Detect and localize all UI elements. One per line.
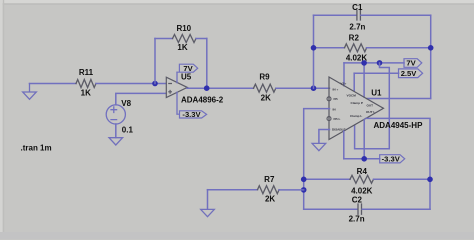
svg-text:VOCM: VOCM [347,93,357,97]
net flag -3.3V (U1 supply) [380,155,405,164]
wire -3.3V row [344,158,380,160]
wire R10 right lead [196,38,207,40]
junction (7V row a) [361,60,367,66]
junction (7V row b) [377,60,383,66]
wire V8 to U5 non-inverting input [116,93,166,104]
junction (R7/R4 node) [301,187,307,193]
junction (-3.3V row) [361,156,367,162]
svg-text:1K: 1K [177,43,187,52]
svg-text:-3.3V: -3.3V [382,155,401,164]
voltage source V8 [106,105,125,124]
resistor R11 [76,80,96,88]
svg-text:ADA4896-2: ADA4896-2 [181,95,224,104]
U5 V+ pin stub [176,72,178,82]
net flag 2.5V (VOCM) [399,69,423,78]
wire 2.5V row [354,72,398,74]
svg-text:4.02K: 4.02K [351,186,373,195]
wire C2 row right [362,208,430,210]
U1 pin bubble (FB+) [327,117,331,121]
svg-text:OUT: OUT [367,103,374,107]
wire R9 to U1 IN+ [276,87,330,89]
ground (R7) [201,209,215,216]
ground (input, left) [23,84,37,100]
resistor R4 [350,175,373,183]
ground (U1 bottom-left pin) [319,130,330,144]
wire feedback right vertical [206,39,208,89]
resistor R2 [345,44,367,52]
wire MODE stub (x=364) [363,63,365,97]
svg-text:Clamp L: Clamp L [350,114,362,118]
wire DISABLE stub [343,131,345,159]
wire VOCM stub [353,73,355,91]
svg-text:C2: C2 [352,196,363,205]
svg-text:R2: R2 [349,33,360,42]
wire R10 left lead [155,38,173,40]
net flag 7V (U5 supply) [177,64,198,73]
junction (R2/C1 left) [311,45,317,51]
svg-text:R11: R11 [79,68,94,77]
net flag -3.3V (U5 supply) [177,110,207,119]
svg-text:R7: R7 [264,175,275,184]
junction (R4 left) [301,177,307,183]
junction (U5 out / R10 / R9) [204,85,210,91]
op-amp U5 [166,77,187,97]
svg-text:2K: 2K [265,195,275,204]
svg-text:2.5V: 2.5V [401,69,418,78]
wire R11 to U5 inverting input [96,83,166,85]
wire U5 output [187,87,254,89]
wire C1 row left [314,14,357,16]
svg-text:VS+: VS+ [341,82,347,86]
svg-text:-3.3V: -3.3V [182,110,201,119]
svg-text:U5: U5 [181,73,192,82]
U1 pin bubble (FB-) [327,97,331,101]
resistor R10 [173,35,196,43]
wire C1 row right [361,14,431,16]
wire top loop right vertical [430,15,432,98]
svg-text:OUT L: OUT L [366,110,375,114]
svg-text:V8: V8 [121,99,131,108]
svg-text:C1: C1 [352,3,363,12]
wire feedback left vertical (top loop) [313,15,315,88]
svg-text:IN +: IN + [333,87,339,91]
resistor R9 [254,84,276,92]
svg-text:U1: U1 [371,89,382,98]
screen border left [0,0,3,239]
svg-text:ADA4945-HP: ADA4945-HP [374,121,424,130]
svg-text:FB L: FB L [334,117,341,121]
wire R7 row left [208,189,258,191]
wire clamp detour (7V to lower slope pin) [355,63,390,149]
wire V8 to ground [115,124,117,138]
capacitor C2 [358,204,362,214]
screen border bottom [0,232,474,239]
capacitor C1 [357,10,361,20]
svg-text:.tran 1m: .tran 1m [21,144,52,153]
screen border top [0,0,474,3]
svg-text:2.7n: 2.7n [349,23,365,32]
op-amp U1 (ADA4945 triangle) [329,77,384,140]
svg-text:2K: 2K [261,94,271,103]
wire OUT- row [367,98,431,100]
ground (V8) [109,138,123,145]
svg-text:1K: 1K [81,89,91,98]
junction (R9 / feedback / IN+) [311,85,317,91]
wire R7 to ground [207,190,209,210]
junction (R4 right) [427,177,433,183]
svg-text:2.7n: 2.7n [349,215,365,224]
wire C2 row left [304,208,358,210]
svg-text:Clamp P: Clamp P [351,101,363,105]
wire V- stub [363,120,365,159]
svg-text:7V: 7V [406,59,416,68]
wire R2 row left [314,47,345,49]
wire IN- column [304,109,330,210]
junction (R2/C1 right) [428,45,434,51]
wire OUT+ row [366,118,430,209]
U5 V- pin stub [176,92,178,114]
wire feedback left vertical [154,39,156,84]
ground symbol (U1) [312,143,326,150]
node A junction (R11/R10/U5-) [152,81,158,87]
resistor R7 [258,186,280,194]
wire R11 left [30,83,77,85]
wire R4 row left [304,178,350,180]
wire V+ stub (x=344) [343,63,345,86]
wire 7V row [344,62,404,64]
wire R7 row right [279,189,304,191]
net flag 7V (U1 supply) [404,59,422,68]
svg-text:R4: R4 [357,167,368,176]
svg-text:R10: R10 [176,24,191,33]
wire R4 row right [374,178,431,180]
svg-text:R9: R9 [259,72,270,81]
wire R2 row right [367,47,431,49]
svg-text:0.1: 0.1 [122,125,134,134]
